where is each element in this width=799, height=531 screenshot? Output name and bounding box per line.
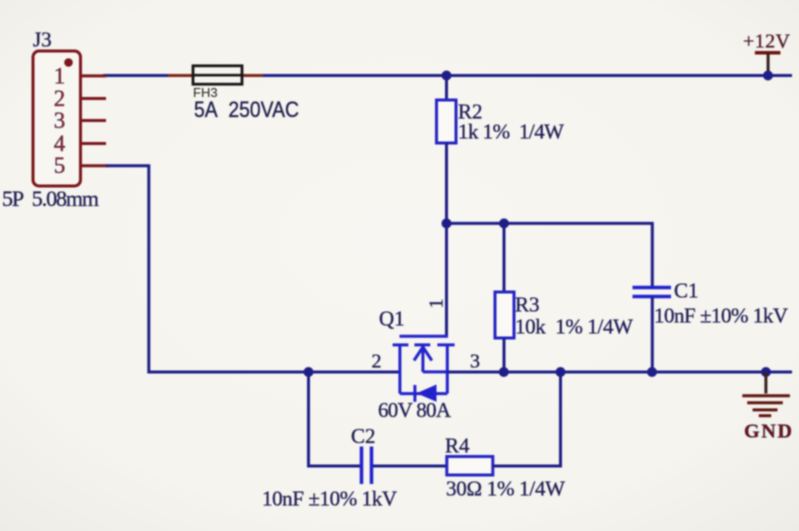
capacitor C1 xyxy=(633,288,672,297)
svg-text:J3: J3 xyxy=(33,28,52,52)
connector J3 xyxy=(33,51,81,186)
wire top rail to R2 xyxy=(445,76,448,102)
junction C1 bottom xyxy=(647,367,657,377)
wire R4 up to source row xyxy=(493,372,561,466)
J3 pin 2 xyxy=(54,86,106,111)
svg-text:1: 1 xyxy=(54,64,66,89)
wire R2 to gate node xyxy=(445,143,448,223)
wire J3 pin5 to drain node (left branch) xyxy=(106,166,400,372)
wire fuse right lead (maroon) xyxy=(242,74,263,77)
fuse FH3 xyxy=(193,66,242,84)
svg-text:C2: C2 xyxy=(351,424,376,448)
svg-text:3: 3 xyxy=(54,108,66,133)
transistor Q1 (N-MOSFET) xyxy=(393,336,455,402)
svg-text:60V 80A: 60V 80A xyxy=(378,398,452,422)
wire gate node row xyxy=(447,223,653,287)
svg-text:R4: R4 xyxy=(445,434,470,458)
svg-text:Q1: Q1 xyxy=(379,307,405,331)
resistor R2 xyxy=(437,100,457,143)
ground xyxy=(742,372,790,416)
junction drain node / C2 branch xyxy=(304,367,314,377)
svg-text:5: 5 xyxy=(54,153,66,178)
junction at +12V on top rail xyxy=(763,71,773,81)
svg-text:30Ω 1% 1/4W: 30Ω 1% 1/4W xyxy=(446,477,565,501)
wire C1 to source row xyxy=(651,297,654,372)
svg-text:+12V: +12V xyxy=(743,31,791,53)
J3 pin 1 xyxy=(54,64,106,89)
junction top rail / R2 xyxy=(442,71,452,81)
svg-text:5A 250VAC: 5A 250VAC xyxy=(194,97,299,122)
wire gate node to R3 xyxy=(503,223,506,293)
svg-text:R3: R3 xyxy=(515,293,540,317)
wire fuse left lead (maroon) xyxy=(168,74,193,77)
wire R3 to source row xyxy=(503,338,506,372)
svg-text:5P 5.08mm: 5P 5.08mm xyxy=(2,186,99,211)
capacitor C2 xyxy=(362,447,372,485)
J3 pin 5 xyxy=(54,153,108,178)
junction snubber return xyxy=(556,367,566,377)
resistor R3 xyxy=(495,292,514,338)
junction gate node xyxy=(442,218,452,228)
wire source row xyxy=(447,371,792,374)
svg-text:GND: GND xyxy=(744,421,792,443)
J3 pin 4 xyxy=(54,131,106,156)
power +12V xyxy=(755,53,781,76)
junction R3 bottom xyxy=(499,367,509,377)
wire gate lead (node to Q1 gate) xyxy=(445,223,448,336)
wire pin1 stub to fuse (top rail left) xyxy=(103,74,792,77)
svg-text:3: 3 xyxy=(470,351,480,373)
J3 pin 3 xyxy=(54,108,106,133)
svg-text:10nF ±10% 1kV: 10nF ±10% 1kV xyxy=(262,487,397,511)
svg-text:10k 1% 1/4W: 10k 1% 1/4W xyxy=(515,315,633,339)
wire drain node down to C2 xyxy=(309,372,361,466)
svg-text:10nF ±10% 1kV: 10nF ±10% 1kV xyxy=(654,304,788,328)
junction GND xyxy=(761,367,771,377)
svg-text:C1: C1 xyxy=(674,279,699,303)
resistor R4 xyxy=(447,457,493,476)
junction R3 top xyxy=(499,218,509,228)
svg-text:1k 1% 1/4W: 1k 1% 1/4W xyxy=(458,120,564,144)
wire C2 to R4 xyxy=(373,465,447,468)
svg-text:2: 2 xyxy=(372,351,382,373)
svg-text:1: 1 xyxy=(426,299,448,309)
